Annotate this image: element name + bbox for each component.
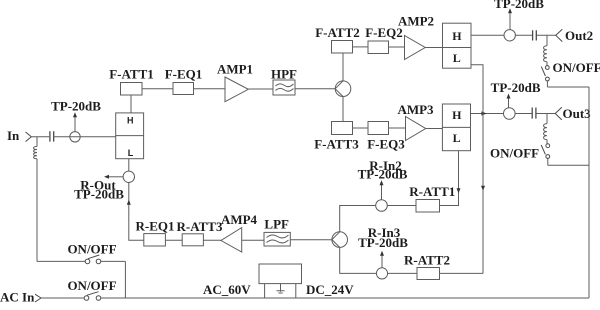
svg-text:AMP3: AMP3 — [397, 102, 434, 117]
svg-text:ON/OFF: ON/OFF — [67, 242, 116, 257]
equalizer F-EQ1 — [165, 66, 203, 94]
wire diplexer2 H to Out2 — [471, 34, 504, 36]
equalizer F-EQ3 — [367, 122, 405, 152]
wire AMP2 to diplexer2 — [425, 47, 442, 49]
test point TP-20dB (In) — [51, 99, 101, 142]
wire AMP1 to HPF — [248, 88, 273, 90]
svg-text:AMP1: AMP1 — [217, 61, 253, 76]
svg-text:F-ATT2: F-ATT2 — [315, 25, 360, 40]
svg-text:ON/OFF: ON/OFF — [553, 60, 600, 75]
wire R-ATT1 to TP R-In2 — [387, 205, 416, 207]
diplexer U1 (H/L) — [116, 113, 144, 159]
svg-text:R-ATT1: R-ATT1 — [409, 184, 455, 199]
wire R-ATT3 to R-EQ1 — [165, 239, 182, 241]
inductor choke (In port AC) — [34, 137, 37, 262]
equalizer R-EQ1 — [136, 218, 175, 246]
switch ON/OFF (Out3) — [490, 144, 550, 166]
wire diplexer2 L to return (vertical x=483) — [471, 65, 485, 274]
inductor choke (Out3 AC bypass) — [544, 114, 547, 144]
inductor choke (Out2 AC bypass) — [544, 35, 547, 65]
wire R-Out TP to diplexer1 L — [128, 159, 130, 171]
wire F-ATT2 to F-EQ2 — [353, 46, 369, 48]
wire LPF to AMP4 — [242, 239, 264, 241]
amplifier AMP4 (return, points left) — [221, 212, 258, 252]
svg-text:L: L — [453, 131, 461, 145]
svg-text:R-ATT2: R-ATT2 — [404, 252, 450, 267]
attenuator F-ATT1 — [109, 66, 154, 95]
node AC In port — [0, 290, 41, 305]
wire R-ATT2 to TP R-In3 — [388, 272, 417, 274]
arrowhead down on x=483 — [481, 186, 485, 191]
connector Out2 chevron — [556, 29, 563, 41]
wire combiner to LPF — [290, 239, 332, 241]
ground symbol — [277, 284, 285, 293]
arrowhead down on x=458.5 — [457, 188, 461, 193]
power supply PSU — [203, 264, 354, 298]
wire TP to capacitor Out2 — [515, 34, 532, 36]
combiner SP2 — [332, 232, 348, 248]
splitter SP1 — [335, 81, 351, 97]
capacitor C-out2 — [533, 30, 537, 40]
test point R-Out TP-20dB — [74, 171, 134, 202]
wire AC rail — [101, 297, 589, 299]
connector In chevron — [26, 132, 32, 142]
wire capacitor to diplexer1 — [54, 136, 115, 138]
svg-text:Out3: Out3 — [563, 106, 592, 121]
wire F-ATT3 to F-EQ3 — [353, 127, 369, 129]
filter LPF — [264, 216, 290, 246]
svg-text:H: H — [452, 29, 462, 43]
svg-text:H: H — [127, 116, 134, 126]
wire AMP3 to diplexer3 — [426, 128, 443, 130]
wire Out2 bypass to right rail — [547, 86, 589, 88]
arrowhead right on Out3 wire at crossing — [481, 111, 486, 115]
svg-text:AMP4: AMP4 — [221, 212, 258, 227]
switch ON/OFF (Out2) — [541, 60, 600, 87]
svg-text:HPF: HPF — [271, 66, 297, 81]
wire choke down to switch row — [36, 159, 38, 262]
wire diplexer3 H to Out3 — [471, 113, 504, 115]
wire TP to capacitor Out3 — [515, 113, 531, 115]
wire TP R-In2 to combiner — [340, 206, 376, 232]
filter HPF — [271, 66, 297, 95]
svg-text:TP-20dB: TP-20dB — [491, 80, 541, 95]
svg-text:DC_24V: DC_24V — [306, 282, 354, 297]
svg-text:F-EQ1: F-EQ1 — [165, 66, 203, 81]
wire x=483 to R-ATT2 — [440, 272, 484, 274]
svg-text:In: In — [7, 128, 20, 143]
switch ON/OFF (In port AC, row1) — [37, 242, 125, 264]
test point R-In3 TP-20dB — [358, 225, 408, 279]
svg-text:Out2: Out2 — [565, 28, 593, 43]
wire Out3 bypass to right rail — [548, 164, 589, 166]
amplifier AMP3 — [397, 102, 434, 141]
wire F-EQ2 to AMP2 — [389, 46, 405, 48]
svg-text:F-ATT1: F-ATT1 — [109, 66, 154, 81]
svg-text:F-EQ3: F-EQ3 — [367, 137, 405, 152]
wire row1 down to AC rail — [124, 261, 126, 298]
wire splitter up to F-ATT2 — [342, 53, 344, 81]
wire HPF to splitter — [295, 88, 335, 90]
svg-text:AMP2: AMP2 — [398, 13, 434, 28]
attenuator R-ATT2 — [404, 252, 450, 279]
wire F-ATT1 to F-EQ1 — [142, 88, 173, 90]
amplifier AMP1 — [217, 61, 253, 101]
wire In to capacitor — [31, 136, 49, 138]
svg-text:L: L — [453, 51, 461, 65]
capacitor C-out3 — [532, 108, 536, 119]
wire diplexer1 H to F-ATT1 — [130, 95, 132, 113]
test point R-In2 TP-20dB — [358, 158, 408, 212]
svg-text:TP-20dB: TP-20dB — [494, 0, 544, 11]
attenuator R-ATT1 — [409, 184, 455, 212]
svg-text:AC_60V: AC_60V — [203, 282, 251, 297]
svg-text:ON/OFF: ON/OFF — [490, 145, 539, 160]
svg-text:H: H — [452, 108, 462, 122]
test point TP-20dB (Out3) — [491, 80, 541, 119]
svg-text:F-ATT3: F-ATT3 — [314, 137, 359, 152]
amplifier AMP2 — [398, 13, 434, 59]
svg-text:TP-20dB: TP-20dB — [51, 99, 101, 114]
attenuator F-ATT2 — [315, 25, 360, 53]
wire F-EQ1 to AMP1 — [194, 88, 226, 90]
wire capacitor to Out3 port — [537, 113, 556, 115]
arrowhead up on return riser — [127, 200, 131, 205]
equalizer F-EQ2 — [365, 25, 403, 54]
wire R-EQ1 up to R-Out TP — [127, 183, 144, 241]
switch ON/OFF (AC In, row2) — [41, 278, 117, 301]
wire capacitor to Out2 port — [537, 34, 556, 36]
diplexer U3 (H/L) — [442, 104, 470, 151]
wire diplexer3 L down to R-ATT1 — [440, 151, 461, 206]
svg-text:R-ATT3: R-ATT3 — [177, 219, 223, 234]
svg-text:R-EQ1: R-EQ1 — [136, 218, 175, 233]
wire F-EQ3 to AMP3 — [389, 127, 406, 129]
wire splitter down to F-ATT3 — [342, 97, 344, 122]
svg-text:L: L — [128, 148, 134, 158]
wire TP R-In3 to combiner — [340, 247, 377, 273]
svg-text:TP-20dB: TP-20dB — [358, 235, 408, 250]
attenuator R-ATT3 — [177, 219, 223, 246]
test point TP-20dB (Out2) — [494, 0, 544, 41]
svg-text:TP-20dB: TP-20dB — [358, 166, 408, 181]
svg-text:TP-20dB: TP-20dB — [74, 187, 124, 202]
attenuator F-ATT3 — [314, 122, 359, 152]
diplexer U2 (H/L) — [443, 23, 472, 68]
svg-text:ON/OFF: ON/OFF — [67, 278, 116, 293]
svg-text:LPF: LPF — [264, 216, 289, 231]
wire right rail — [588, 87, 590, 298]
wire AMP4 to R-ATT3 — [203, 239, 221, 241]
connector Out3 chevron — [555, 107, 562, 120]
node In port — [7, 128, 116, 143]
svg-text:AC In: AC In — [0, 290, 35, 305]
capacitor C-in — [50, 131, 54, 141]
